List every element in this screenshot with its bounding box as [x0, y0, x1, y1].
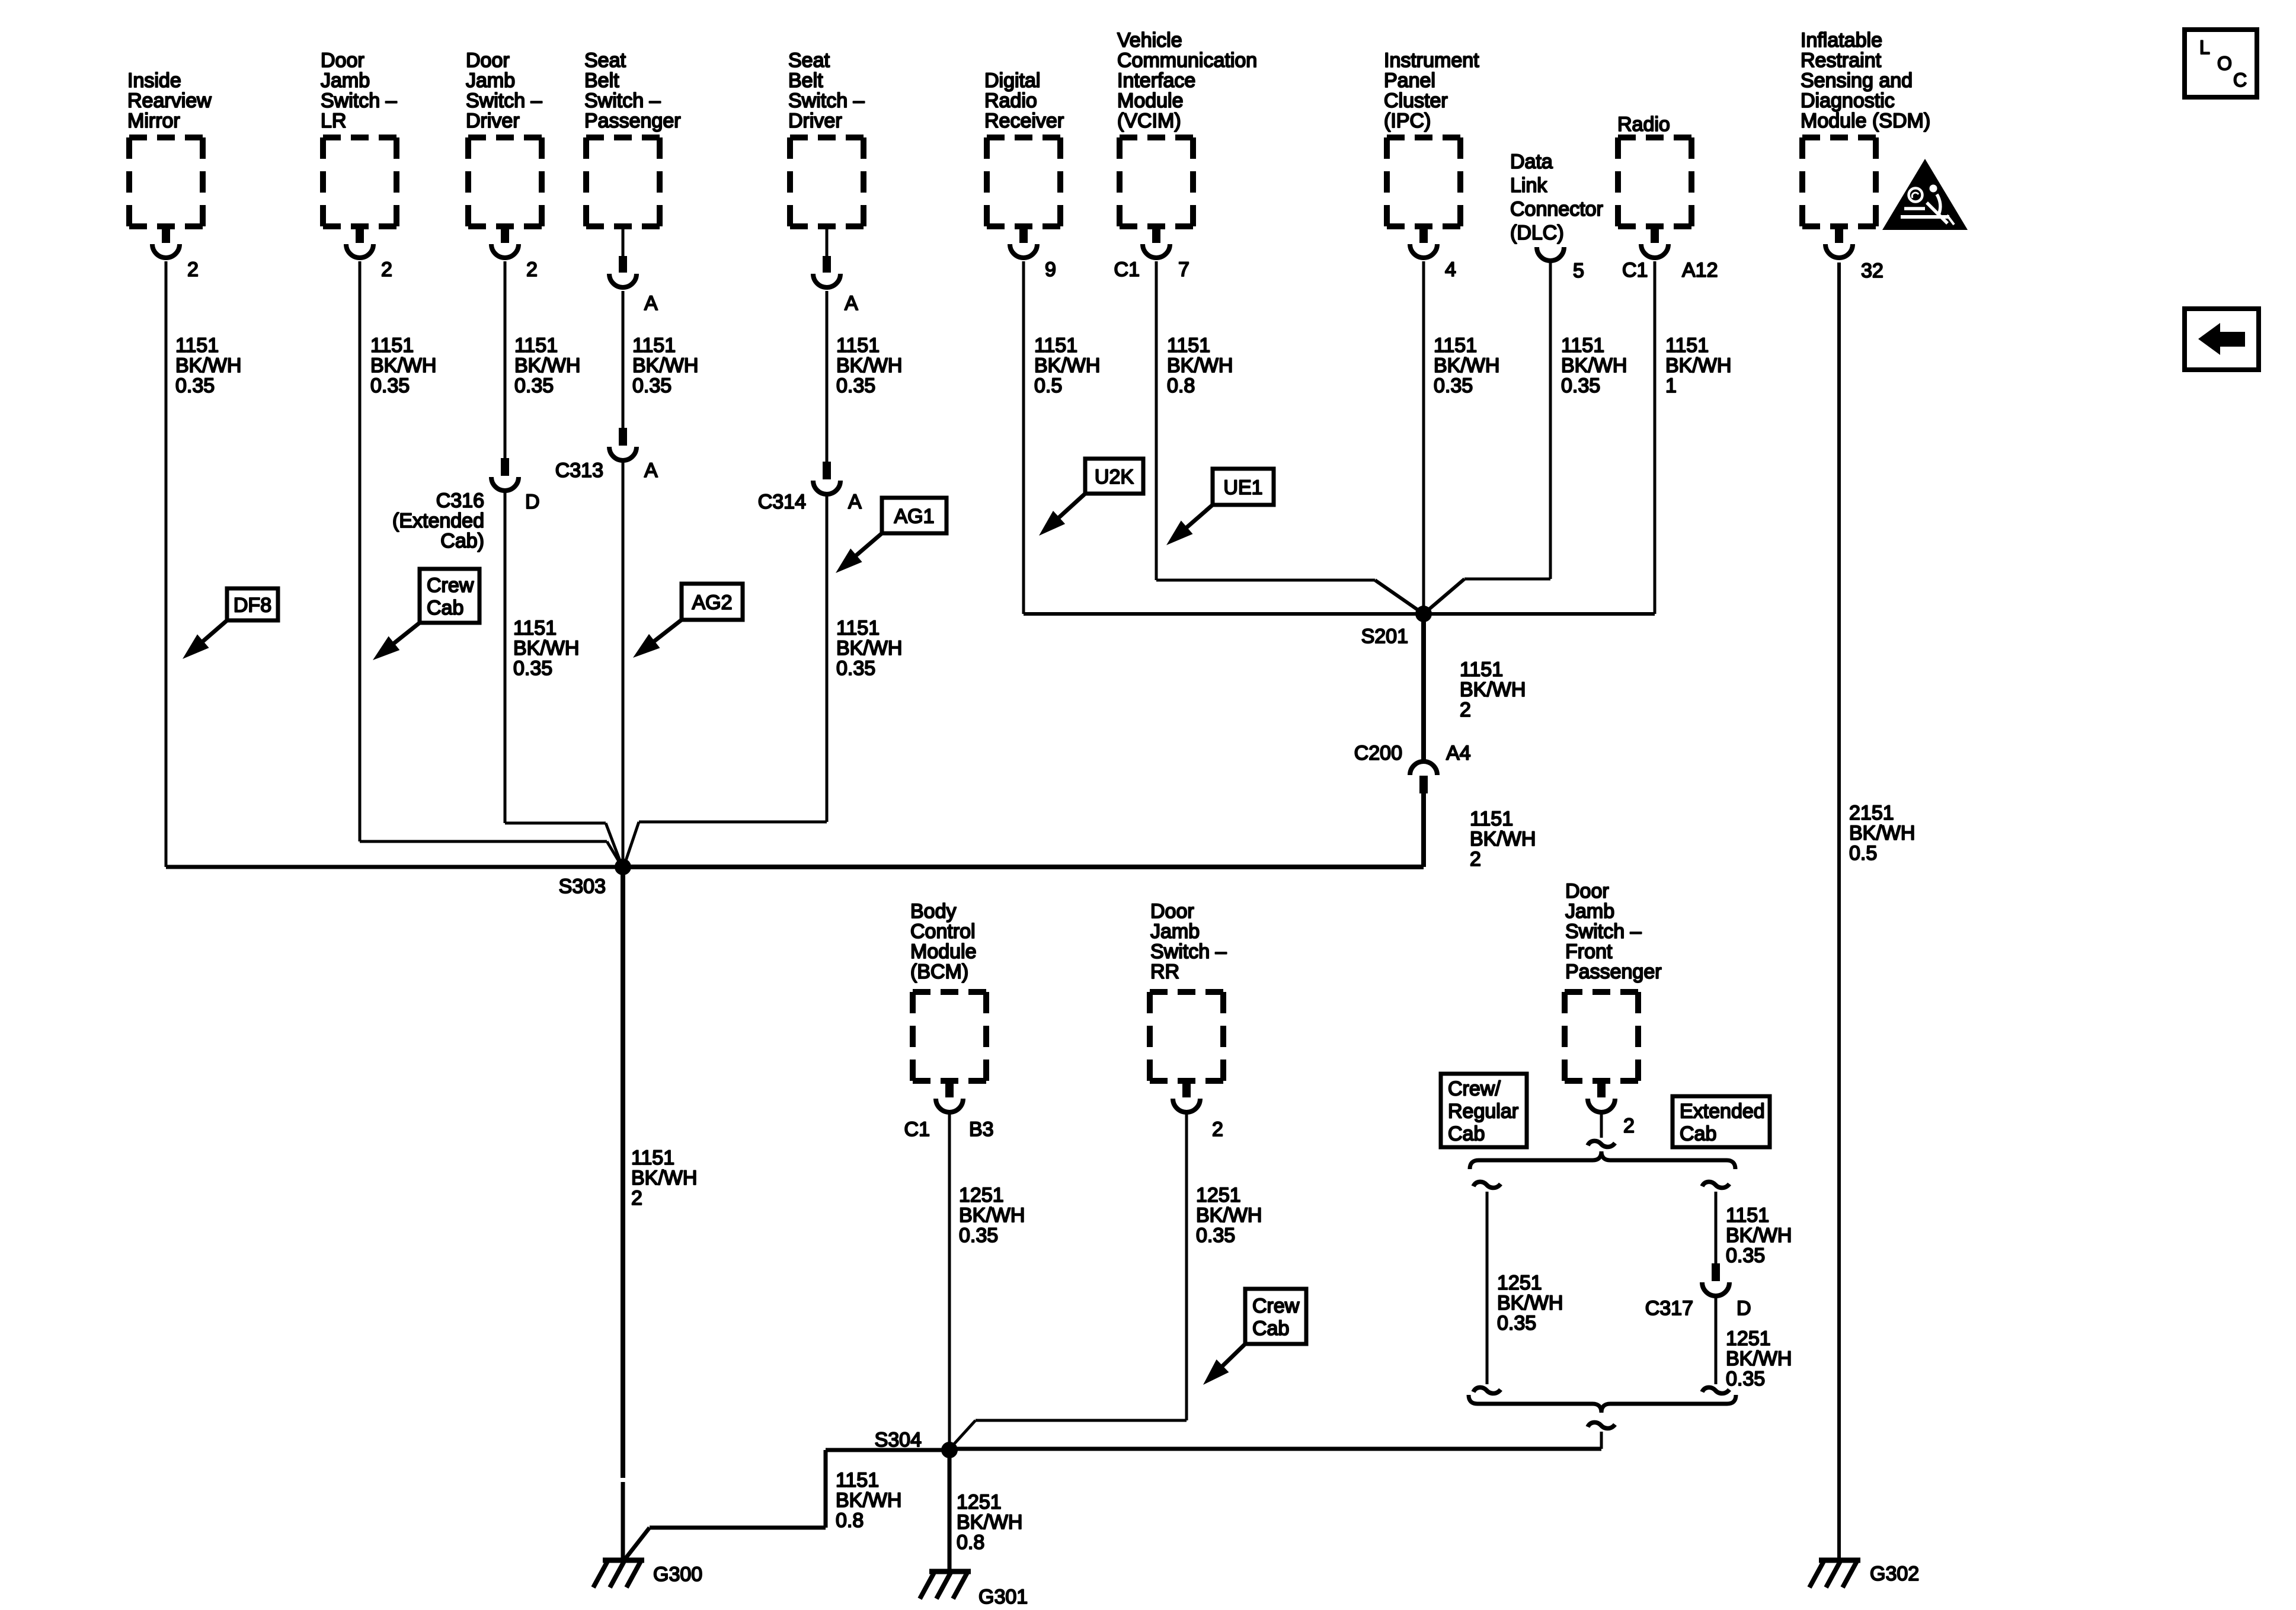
Crew Cab callout box (lower) — [1245, 1289, 1306, 1344]
svg-text:A4: A4 — [1446, 742, 1471, 764]
svg-text:BK/WH: BK/WH — [1665, 354, 1731, 377]
ground G300 — [593, 1560, 644, 1587]
wire label 1151 BK/WH 1 (Radio) — [1665, 334, 1731, 397]
svg-text:BK/WH: BK/WH — [1167, 354, 1233, 377]
DF8 callout box — [227, 588, 278, 620]
svg-text:BK/WH: BK/WH — [175, 354, 241, 377]
wire label 1151 BK/WH 0.8 (VCIM) — [1167, 334, 1233, 397]
svg-text:0.5: 0.5 — [1849, 842, 1877, 865]
S303 label — [559, 875, 606, 898]
connector C317 inline — [1702, 1263, 1729, 1296]
svg-text:Door: Door — [321, 49, 364, 72]
svg-text:Door: Door — [1150, 900, 1194, 923]
svg-text:1151: 1151 — [370, 334, 414, 357]
svg-text:Receiver: Receiver — [984, 110, 1064, 132]
svg-text:0.35: 0.35 — [836, 657, 875, 680]
component Body Control Module (BCM) label — [910, 900, 977, 983]
svg-text:0.35: 0.35 — [1726, 1368, 1765, 1390]
S201 label — [1361, 625, 1408, 648]
ground G302 — [1809, 1560, 1860, 1587]
svg-text:Communication: Communication — [1117, 49, 1257, 72]
svg-text:Extended: Extended — [1680, 1100, 1765, 1123]
svg-text:0.35: 0.35 — [175, 375, 215, 397]
svg-text:BK/WH: BK/WH — [1460, 678, 1526, 701]
connector pin under Inside Rearview Mirror — [152, 226, 180, 258]
svg-text:Sensing and: Sensing and — [1801, 69, 1913, 92]
component box Door Jamb Switch - LR — [323, 137, 396, 226]
connector pin under Door Jamb Switch - LR — [346, 226, 373, 258]
svg-text:1151: 1151 — [1470, 808, 1513, 830]
connector C313 inline — [609, 428, 637, 460]
svg-text:1151: 1151 — [1460, 658, 1503, 681]
wire from brace to S304 — [949, 1432, 1601, 1449]
wire continuation squiggle (crew branch bottom) — [1473, 1387, 1501, 1393]
pin 2 label (Inside Rearview Mirror) — [187, 258, 199, 281]
svg-text:1251: 1251 — [1497, 1272, 1542, 1294]
svg-text:0.8: 0.8 — [836, 1509, 864, 1532]
svg-text:BK/WH: BK/WH — [1196, 1204, 1262, 1227]
SDM airbag warning triangle icon — [1882, 159, 1968, 230]
svg-text:1151: 1151 — [836, 617, 880, 639]
svg-text:A: A — [845, 292, 858, 315]
wire label 1151 BK/WH 0.35 (driver lower) — [513, 617, 579, 680]
svg-text:1251: 1251 — [1726, 1327, 1771, 1350]
svg-text:BK/WH: BK/WH — [1726, 1347, 1792, 1370]
wire label 1151 BK/WH 0.35 (sb driver lower) — [836, 617, 902, 680]
svg-text:32: 32 — [1861, 260, 1884, 282]
wire S304 down to G301 (1251 BK/WH 0.8) — [948, 1450, 952, 1571]
pin D label (C316) — [525, 491, 540, 513]
svg-text:U2K: U2K — [1095, 466, 1134, 488]
svg-text:Vehicle: Vehicle — [1117, 29, 1182, 52]
svg-text:BK/WH: BK/WH — [1434, 354, 1499, 377]
G302 label — [1870, 1563, 1919, 1585]
splice S201 — [1415, 606, 1432, 622]
wire VCIM to S201 (1151 BK/WH 0.8) — [1156, 261, 1424, 614]
svg-text:Driver: Driver — [466, 110, 520, 132]
svg-text:L: L — [2199, 37, 2210, 58]
svg-text:Front: Front — [1565, 940, 1613, 963]
svg-text:1151: 1151 — [1561, 334, 1604, 357]
connector pin under Digital Radio Receiver — [1010, 226, 1037, 258]
component box IPC — [1387, 137, 1460, 226]
svg-text:1151: 1151 — [1167, 334, 1210, 357]
pin C1 label (BCM) — [904, 1118, 930, 1141]
svg-text:Restraint: Restraint — [1801, 49, 1882, 72]
svg-text:A: A — [644, 459, 658, 482]
connector pin under Radio — [1641, 226, 1668, 258]
wire label 1251 BK/WH 0.35 (BCM) — [959, 1184, 1025, 1247]
svg-text:Switch –: Switch – — [321, 89, 397, 112]
brace lower (cab variants merge) — [1469, 1395, 1736, 1413]
svg-text:Module: Module — [1117, 89, 1184, 112]
svg-text:0.8: 0.8 — [957, 1531, 984, 1554]
svg-text:0.35: 0.35 — [836, 375, 875, 397]
wire extended cab branch lower (1251 BK/WH 0.35) — [1715, 1298, 1718, 1384]
svg-text:Rearview: Rearview — [127, 89, 212, 112]
svg-text:(VCIM): (VCIM) — [1117, 110, 1181, 132]
wire Digital Radio Receiver to S201 (1151 BK/WH 0.5) — [1024, 261, 1424, 614]
C314 label — [758, 491, 806, 513]
wire Seat Belt Switch Passenger lower segment into S303 — [622, 462, 625, 867]
svg-text:BK/WH: BK/WH — [836, 1489, 901, 1512]
G300 label — [653, 1563, 702, 1586]
svg-text:1151: 1151 — [514, 334, 558, 357]
svg-text:B3: B3 — [969, 1118, 994, 1141]
wire continuation squiggle (below lower brace) — [1588, 1422, 1615, 1428]
svg-text:1151: 1151 — [1665, 334, 1709, 357]
svg-text:Radio: Radio — [1617, 113, 1670, 136]
svg-text:Belt: Belt — [584, 69, 619, 92]
svg-text:Jamb: Jamb — [466, 69, 515, 92]
component Vehicle Communication Interface Module (VCIM) label — [1117, 29, 1257, 132]
svg-text:AG1: AG1 — [894, 505, 934, 528]
wire label 1251 BK/WH 0.35 (RR) — [1196, 1184, 1262, 1247]
component Inflatable Restraint Sensing and Diagnostic Module (SDM) label — [1801, 29, 1930, 132]
component Instrument Panel Cluster (IPC) label — [1384, 49, 1479, 132]
svg-text:1: 1 — [1665, 375, 1677, 397]
wire label 1151 BK/WH 0.35 (sb driver upper) — [836, 334, 902, 397]
wire S201 down to C200 (1151 BK/WH 2) — [1421, 614, 1426, 760]
DF8 arrow — [183, 620, 227, 659]
svg-text:0.35: 0.35 — [1497, 1312, 1536, 1334]
svg-text:1151: 1151 — [631, 1147, 674, 1169]
UE1 arrow — [1166, 505, 1213, 545]
svg-text:1151: 1151 — [836, 334, 880, 357]
pin A label (C313) — [644, 459, 658, 482]
svg-text:0.35: 0.35 — [370, 375, 410, 397]
svg-text:Panel: Panel — [1384, 69, 1435, 92]
wire label 1151 BK/WH 2 (S303-G300) — [631, 1147, 697, 1209]
pin 2 label (Door Jamb Switch RR) — [1212, 1118, 1223, 1141]
component Data Link Connector (DLC) label — [1510, 151, 1603, 244]
pin D label (C317) — [1737, 1297, 1751, 1320]
wire label 1251 BK/WH 0.35 (crew branch) — [1497, 1272, 1563, 1334]
svg-text:(Extended: (Extended — [392, 510, 484, 532]
svg-text:2: 2 — [1212, 1118, 1223, 1141]
wire label 1151 BK/WH 0.35 (passenger) — [632, 334, 698, 397]
svg-text:0.35: 0.35 — [514, 375, 554, 397]
wire S303 down to G300 (1151 BK/WH 2) — [621, 867, 625, 1560]
svg-text:C313: C313 — [555, 459, 603, 482]
svg-text:0.35: 0.35 — [1196, 1224, 1235, 1247]
svg-text:BK/WH: BK/WH — [836, 354, 902, 377]
wire crew/regular cab branch (1251 BK/WH 0.35) — [1486, 1192, 1489, 1384]
svg-text:Switch –: Switch – — [1565, 920, 1642, 943]
svg-text:1151: 1151 — [1726, 1204, 1769, 1227]
svg-text:0.35: 0.35 — [632, 375, 671, 397]
component Door Jamb Switch - Driver label — [466, 49, 542, 132]
wire Seat Belt Switch Driver upper segment (1151 BK/WH 0.35) — [826, 291, 829, 462]
component Radio label — [1617, 113, 1670, 136]
svg-text:C200: C200 — [1354, 742, 1402, 764]
svg-text:Body: Body — [910, 900, 957, 923]
svg-text:G300: G300 — [653, 1563, 702, 1586]
svg-text:S304: S304 — [875, 1429, 922, 1451]
svg-text:1151: 1151 — [513, 617, 557, 639]
svg-text:UE1: UE1 — [1223, 476, 1262, 499]
wire label 1151 BK/WH 2 (C200-S303) — [1470, 808, 1536, 870]
svg-text:0.5: 0.5 — [1034, 375, 1062, 397]
pin 2 label (Door Jamb Switch - Driver) — [526, 258, 538, 281]
Crew Cab callout box (upper) — [420, 569, 479, 623]
pin A12 label (Radio) — [1682, 259, 1718, 281]
svg-text:Jamb: Jamb — [1565, 900, 1614, 923]
svg-text:Mirror: Mirror — [127, 110, 180, 132]
svg-text:Seat: Seat — [788, 49, 830, 72]
svg-text:BK/WH: BK/WH — [1034, 354, 1100, 377]
component Door Jamb Switch - RR label — [1150, 900, 1227, 983]
svg-text:Cab): Cab) — [440, 530, 484, 552]
wire SDM to G302 (2151 BK/WH 0.5) — [1837, 263, 1841, 1560]
connector C316 inline — [491, 458, 519, 491]
svg-text:D: D — [1737, 1297, 1751, 1320]
svg-text:C316: C316 — [436, 489, 484, 512]
wire Radio to S201 (1151 BK/WH 1) — [1424, 261, 1655, 614]
svg-text:1151: 1151 — [632, 334, 676, 357]
svg-text:2: 2 — [631, 1187, 642, 1209]
connector C314 inline — [813, 462, 840, 494]
svg-text:0.35: 0.35 — [1434, 375, 1473, 397]
wire continuation squiggle (extended branch bottom) — [1702, 1387, 1729, 1393]
svg-text:0.35: 0.35 — [1561, 375, 1600, 397]
svg-text:Module: Module — [910, 940, 977, 963]
pin A label (C314) — [848, 491, 862, 513]
svg-text:Radio: Radio — [984, 89, 1037, 112]
pin 5 label (DLC) — [1573, 260, 1584, 282]
G301 label — [978, 1586, 1028, 1608]
svg-text:Crew: Crew — [427, 574, 474, 597]
left arrow direction box — [2185, 309, 2259, 370]
svg-text:1151: 1151 — [1034, 334, 1077, 357]
component Door Jamb Switch - Front Passenger label — [1565, 880, 1662, 983]
U2K arrow — [1039, 494, 1085, 536]
wire label 1151 BK/WH 0.35 (mirror) — [175, 334, 241, 397]
svg-text:2: 2 — [526, 258, 538, 281]
connector C200 inline (flipped) — [1410, 761, 1437, 793]
svg-text:2: 2 — [381, 258, 392, 281]
svg-text:C1: C1 — [904, 1118, 930, 1141]
wire Seat Belt Switch Passenger upper segment (1151 BK/WH 0.35) — [622, 291, 625, 428]
svg-text:(BCM): (BCM) — [910, 961, 968, 983]
connector pin under Door Jamb Switch RR — [1173, 1081, 1200, 1112]
component box Radio — [1618, 137, 1691, 226]
svg-text:C1: C1 — [1622, 259, 1648, 281]
svg-text:BK/WH: BK/WH — [370, 354, 436, 377]
wire label 2151 BK/WH 0.5 (SDM) — [1849, 802, 1915, 865]
pin C1 label (VCIM) — [1114, 258, 1140, 281]
svg-text:1151: 1151 — [836, 1469, 879, 1491]
svg-text:Digital: Digital — [984, 69, 1040, 92]
svg-text:0.35: 0.35 — [959, 1224, 998, 1247]
svg-text:BK/WH: BK/WH — [632, 354, 698, 377]
wire label 1151 BK/WH 0.35 (IPC) — [1434, 334, 1499, 397]
wire DLC to S201 (1151 BK/WH 0.35) — [1424, 263, 1550, 614]
wire Door Jamb Switch LR to S303 (1151 BK/WH 0.35) — [360, 261, 621, 865]
svg-text:Door: Door — [1565, 880, 1609, 902]
svg-text:BK/WH: BK/WH — [1726, 1224, 1792, 1247]
svg-text:RR: RR — [1150, 961, 1179, 983]
svg-text:Driver: Driver — [788, 110, 842, 132]
component Door Jamb Switch - LR label — [321, 49, 397, 132]
pin 4 label (IPC) — [1445, 258, 1456, 281]
svg-text:0.35: 0.35 — [1726, 1244, 1765, 1267]
svg-text:BK/WH: BK/WH — [959, 1204, 1025, 1227]
pin A label (Seat Belt Switch - Passenger) — [644, 292, 658, 315]
wire label 1151 BK/WH 0.35 (extended branch) — [1726, 1204, 1792, 1267]
AG1 arrow — [836, 533, 882, 573]
connector pin under Seat Belt Switch - Passenger — [609, 226, 637, 287]
svg-text:C317: C317 — [1645, 1297, 1693, 1320]
svg-text:(DLC): (DLC) — [1510, 222, 1564, 244]
pin A label (Seat Belt Switch - Driver) — [845, 292, 858, 315]
svg-text:A: A — [644, 292, 658, 315]
pin 9 label (Digital Radio Receiver) — [1045, 258, 1056, 281]
svg-text:Crew: Crew — [1252, 1295, 1300, 1317]
svg-text:2: 2 — [1470, 848, 1481, 870]
svg-text:9: 9 — [1045, 258, 1056, 281]
C317 label — [1645, 1297, 1693, 1320]
C316 (Extended Cab) label — [392, 489, 484, 552]
Extended Cab label box — [1673, 1096, 1770, 1147]
svg-text:AG2: AG2 — [692, 591, 732, 614]
wire label 1151 BK/WH 0.5 (DRR) — [1034, 334, 1100, 397]
svg-text:Inflatable: Inflatable — [1801, 29, 1882, 52]
svg-text:Connector: Connector — [1510, 198, 1603, 220]
svg-text:BK/WH: BK/WH — [1561, 354, 1627, 377]
wire label 1151 BK/WH 0.35 (LR) — [370, 334, 436, 397]
svg-text:D: D — [525, 491, 540, 513]
svg-text:O: O — [2217, 53, 2232, 74]
svg-text:Link: Link — [1510, 174, 1547, 197]
svg-text:5: 5 — [1573, 260, 1584, 282]
svg-text:S201: S201 — [1361, 625, 1408, 648]
svg-text:A: A — [848, 491, 862, 513]
connector pin under Door Jamb Switch Front Passenger — [1588, 1081, 1615, 1112]
svg-text:Cluster: Cluster — [1384, 89, 1448, 112]
Crew/Regular Cab label box — [1441, 1074, 1527, 1147]
svg-text:Switch –: Switch – — [1150, 940, 1227, 963]
component box Seat Belt Switch - Driver — [790, 137, 864, 226]
Crew Cab (upper) arrow — [373, 623, 420, 660]
svg-text:C1: C1 — [1114, 258, 1140, 281]
splice S304 — [941, 1442, 958, 1458]
wire Front Passenger pin to brace — [1600, 1113, 1603, 1138]
pin 2 label (Door Jamb Switch - LR) — [381, 258, 392, 281]
splice S303 — [615, 859, 631, 875]
ground G301 — [920, 1571, 971, 1599]
svg-text:Jamb: Jamb — [1150, 920, 1200, 943]
wire label 1151 BK/WH 2 (S201-C200) — [1460, 658, 1526, 721]
svg-text:LR: LR — [321, 110, 346, 132]
svg-text:1151: 1151 — [1434, 334, 1477, 357]
svg-text:0.35: 0.35 — [513, 657, 552, 680]
C313 label — [555, 459, 603, 482]
wire label 1151 BK/WH 0.35 (DLC) — [1561, 334, 1627, 397]
svg-text:Cab: Cab — [1448, 1123, 1485, 1145]
svg-text:Crew/: Crew/ — [1448, 1078, 1501, 1100]
S304 label — [875, 1429, 922, 1451]
svg-text:Jamb: Jamb — [321, 69, 370, 92]
svg-text:Control: Control — [910, 920, 976, 943]
wire continuation squiggle (crew branch top) — [1473, 1182, 1501, 1188]
svg-text:Passenger: Passenger — [1565, 961, 1662, 983]
component Inside Rearview Mirror label — [127, 69, 212, 132]
wire continuation squiggle (extended branch top) — [1702, 1182, 1729, 1188]
svg-text:S303: S303 — [559, 875, 606, 898]
wire IPC into S201 (1151 BK/WH 0.35) — [1422, 261, 1425, 614]
wire C200 down and left to S303 (1151 BK/WH 2) — [623, 793, 1424, 867]
svg-text:Diagnostic: Diagnostic — [1801, 89, 1895, 112]
connector pin under SDM — [1825, 226, 1853, 258]
svg-text:4: 4 — [1445, 258, 1456, 281]
svg-text:Interface: Interface — [1117, 69, 1195, 92]
wire extended cab branch upper (1151 BK/WH 0.35) — [1715, 1192, 1718, 1263]
svg-text:Switch –: Switch – — [788, 89, 865, 112]
svg-text:Cab: Cab — [1680, 1123, 1716, 1145]
svg-text:BK/WH: BK/WH — [1497, 1292, 1563, 1314]
wire label 1151 BK/WH 0.8 (S304-G300) — [836, 1469, 901, 1532]
wire label 1251 BK/WH 0.35 (extended branch lower) — [1726, 1327, 1792, 1390]
svg-text:Passenger: Passenger — [584, 110, 681, 132]
wire Door Jamb Switch RR to S304 (1251 BK/WH 0.35) — [952, 1113, 1187, 1446]
svg-text:1151: 1151 — [175, 334, 219, 357]
svg-text:Cab: Cab — [427, 597, 463, 619]
svg-text:G301: G301 — [978, 1586, 1028, 1608]
svg-text:Module (SDM): Module (SDM) — [1801, 110, 1930, 132]
svg-text:2: 2 — [1460, 699, 1471, 721]
connector pin under BCM — [936, 1081, 963, 1112]
brace upper (cab variants split) — [1470, 1151, 1735, 1169]
svg-text:Switch –: Switch – — [584, 89, 661, 112]
wire BCM to S304 (1251 BK/WH 0.35) — [948, 1113, 951, 1450]
svg-text:BK/WH: BK/WH — [957, 1511, 1022, 1534]
connector pin under IPC — [1410, 226, 1437, 258]
wire label 1151 BK/WH 0.35 (driver upper) — [514, 334, 580, 397]
svg-text:Switch –: Switch – — [466, 89, 542, 112]
svg-text:2: 2 — [187, 258, 199, 281]
svg-text:BK/WH: BK/WH — [631, 1167, 697, 1189]
svg-text:1251: 1251 — [959, 1184, 1004, 1206]
component Digital Radio Receiver label — [984, 69, 1064, 132]
wire Seat Belt Switch Driver lower segment to S303 — [625, 494, 827, 862]
component box Door Jamb Switch - Driver — [468, 137, 542, 226]
component box Door Jamb Switch Front Passenger — [1565, 992, 1638, 1081]
pin 2 label (Door Jamb Switch Front Passenger) — [1623, 1115, 1635, 1137]
connector pin under VCIM — [1143, 226, 1170, 258]
pin B3 label (BCM) — [969, 1118, 994, 1141]
component box Digital Radio Receiver — [987, 137, 1060, 226]
UE1 callout box — [1213, 469, 1274, 505]
connector cup Data Link Connector — [1537, 247, 1564, 261]
svg-text:BK/WH: BK/WH — [836, 637, 902, 660]
wire Door Jamb Switch Driver lower segment to S303 — [505, 492, 621, 862]
AG2 callout box — [682, 584, 743, 620]
svg-text:BK/WH: BK/WH — [514, 354, 580, 377]
C200 label — [1354, 742, 1402, 764]
svg-text:2: 2 — [1623, 1115, 1635, 1137]
svg-text:(IPC): (IPC) — [1384, 110, 1431, 132]
wire Door Jamb Switch Driver upper segment (1151 BK/WH 0.35) — [504, 261, 507, 458]
LOC legend box — [2185, 30, 2257, 97]
wire continuation squiggle (front passenger) — [1588, 1141, 1615, 1147]
component Seat Belt Switch - Driver label — [788, 49, 865, 132]
svg-text:C314: C314 — [758, 491, 806, 513]
svg-text:DF8: DF8 — [234, 594, 271, 617]
component Seat Belt Switch - Passenger label — [584, 49, 681, 132]
U2K callout box — [1085, 459, 1143, 494]
component box SDM — [1802, 137, 1876, 226]
